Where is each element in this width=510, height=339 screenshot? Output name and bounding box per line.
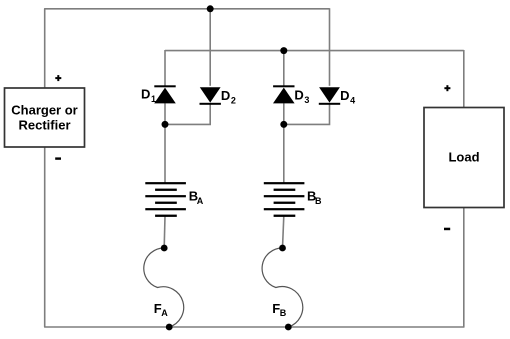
node A: D1-D2 junction: [162, 121, 169, 128]
charger plus terminal label: [55, 75, 61, 81]
wire: D1 branch vertical from second rail: [164, 50, 166, 86]
svg-text:4: 4: [350, 96, 355, 106]
svg-text:B: B: [280, 308, 287, 318]
wire: battery BB to fuse FB: [283, 216, 284, 248]
load minus terminal label: [444, 228, 450, 231]
load plus terminal label: [444, 85, 450, 91]
battery BB label: [307, 189, 322, 207]
svg-text:1: 1: [151, 94, 156, 104]
battery BB: [264, 182, 305, 217]
diode D1: [154, 85, 176, 103]
wire: load positive vertical: [463, 50, 465, 108]
wire: node A to battery BA: [164, 124, 166, 183]
fuse FA s-curve: [144, 248, 184, 327]
fuse FA label: [154, 301, 169, 318]
diode D3 label: [294, 88, 309, 105]
wire: node B to battery BB: [283, 124, 285, 183]
svg-text:Charger or: Charger or: [11, 102, 77, 117]
node B: D3-D4 junction: [280, 121, 287, 128]
wire: D1 cathode to node A: [164, 103, 166, 124]
diode D1 label: [141, 87, 156, 104]
svg-text:Load: Load: [448, 150, 479, 165]
diode D4 label: [340, 88, 355, 105]
svg-text:D: D: [221, 88, 230, 103]
battery BA: [145, 182, 186, 217]
node: fuse FA top terminal: [161, 245, 168, 252]
node: fuse FB top terminal: [279, 245, 286, 252]
fuse FB s-curve: [262, 248, 303, 327]
svg-text:Rectifier: Rectifier: [18, 117, 70, 132]
wire: D3 branch vertical from second rail node: [283, 51, 285, 86]
node: top rail junction: [207, 5, 214, 12]
diode D3: [273, 85, 295, 103]
svg-text:A: A: [197, 196, 204, 206]
wire: D2 branch vertical from top rail node: [209, 9, 211, 86]
wire: bottom rail horizontal: [44, 326, 464, 328]
wire: second rail horizontal: [165, 50, 464, 52]
wire: charger positive vertical: [44, 9, 46, 88]
wire: top rail horizontal: [44, 8, 329, 10]
fuse FB label: [272, 301, 287, 318]
svg-text:B: B: [315, 196, 322, 206]
wire: D4 anode to node B: [284, 105, 330, 125]
charger minus terminal label: [55, 157, 61, 159]
svg-text:A: A: [161, 308, 168, 318]
wire: D4 branch vertical from top rail: [329, 8, 331, 86]
svg-text:D: D: [294, 88, 303, 103]
wire: D2 anode to node A: [165, 105, 210, 125]
svg-text:3: 3: [304, 95, 309, 105]
charger or rectifier box: [5, 88, 85, 147]
wire: charger negative vertical: [44, 147, 46, 327]
diode D2 label: [221, 88, 236, 105]
svg-text:D: D: [340, 88, 349, 103]
wire: load negative vertical: [463, 208, 465, 328]
wire: D3 cathode to node B: [283, 103, 285, 124]
diode D2: [200, 87, 221, 105]
diode D4: [319, 87, 340, 105]
node: fuse FB bottom terminal: [285, 324, 292, 331]
svg-text:2: 2: [231, 95, 236, 105]
node: second rail junction: [280, 47, 287, 54]
svg-text:D: D: [141, 87, 150, 102]
node: fuse FA bottom terminal: [166, 324, 173, 331]
battery BA label: [189, 189, 204, 207]
wire: battery BA to fuse FA: [163, 216, 166, 248]
load box: [424, 108, 504, 208]
